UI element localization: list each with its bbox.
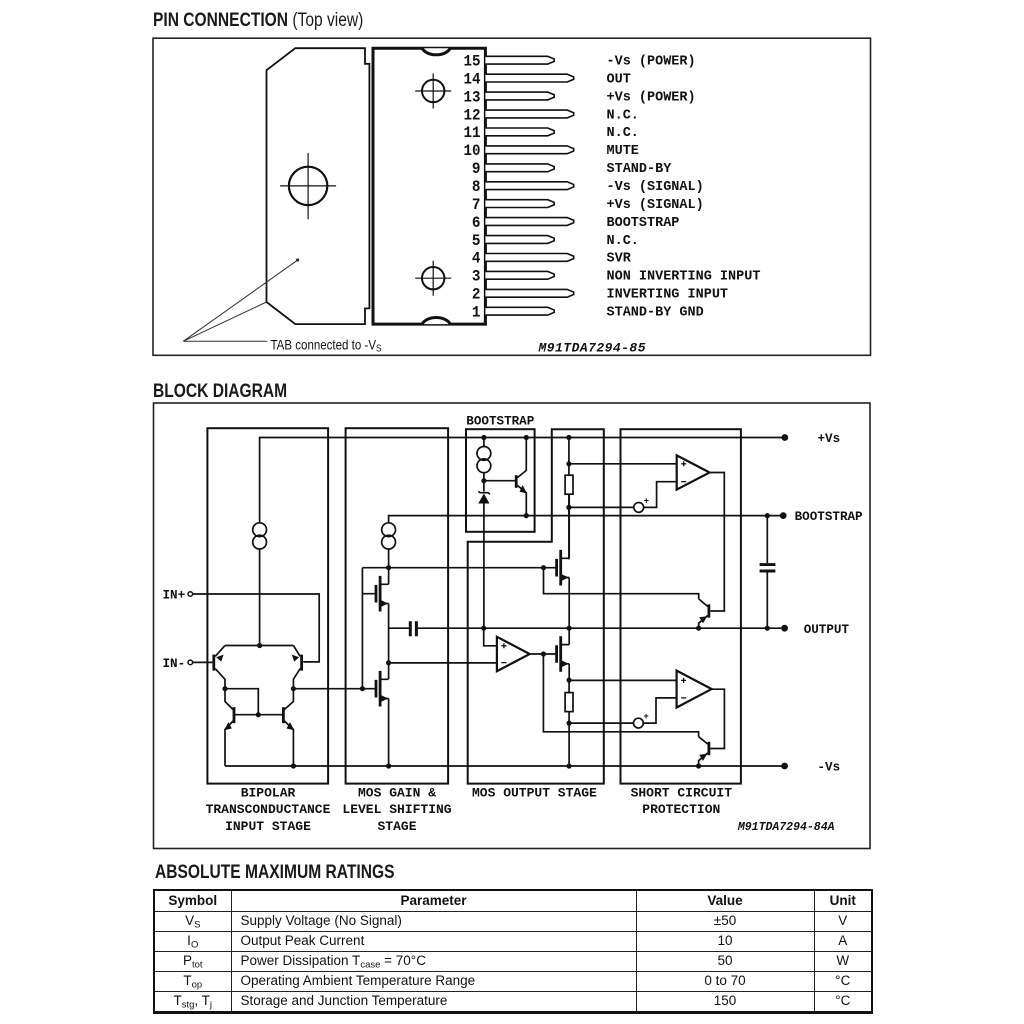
wire P1 to A1 inverting input bbox=[644, 482, 677, 508]
absolute maximum ratings table bbox=[153, 889, 873, 1014]
wire A2 output to M4 gate bbox=[530, 653, 557, 655]
tab leader lines bbox=[183, 258, 299, 341]
svg-text:+Vs (SIGNAL): +Vs (SIGNAL) bbox=[607, 198, 704, 213]
svg-text:OUT: OUT bbox=[607, 72, 631, 87]
junction R1 top tap bbox=[566, 461, 571, 466]
junction +Vs/bootstrap current source bbox=[481, 435, 486, 440]
junction emitter rail bbox=[257, 643, 262, 648]
transistor Q4 (protection PNP, lower) bbox=[708, 742, 711, 755]
wire A2 output to protection (lower) bbox=[543, 654, 698, 737]
transistor Q1 (bootstrap follower) bbox=[515, 475, 518, 488]
svg-text:N.C.: N.C. bbox=[607, 234, 639, 249]
svg-text:M91TDA7294-84A: M91TDA7294-84A bbox=[737, 821, 835, 834]
svg-text:10: 10 bbox=[464, 142, 481, 160]
wire A2 + input from feedback node bbox=[484, 628, 497, 646]
svg-text:BIPOLAR: BIPOLAR bbox=[241, 786, 296, 801]
package body bbox=[373, 48, 485, 324]
body crosshair bottom bbox=[422, 267, 444, 289]
wire IN+ to Q6 base bbox=[193, 594, 320, 662]
junction Q6 collector node bbox=[291, 686, 296, 691]
svg-text:BOOTSTRAP: BOOTSTRAP bbox=[795, 510, 863, 524]
svg-text:6: 6 bbox=[472, 214, 481, 232]
resistor R2 bbox=[568, 680, 570, 693]
junction R2 bottom bbox=[567, 721, 572, 726]
svg-text:N.C.: N.C. bbox=[607, 108, 639, 123]
svg-text:BOOTSTRAP: BOOTSTRAP bbox=[607, 216, 680, 231]
wire A3 output to Q4 base bbox=[710, 689, 724, 748]
terminal OUTPUT bbox=[782, 626, 787, 631]
BOOTSTRAP rail wire bbox=[389, 516, 784, 523]
capacitor C1 (Miller) left wire bbox=[389, 627, 409, 629]
svg-text:+Vs: +Vs bbox=[818, 432, 841, 446]
wire M4 source to R2 node bbox=[568, 664, 570, 680]
wire input stage output to M2 gate bbox=[293, 688, 376, 690]
wire R1 tap to A1 non-inverting input bbox=[569, 463, 677, 465]
pin 2 lead bbox=[485, 289, 573, 297]
pin 14 lead bbox=[485, 74, 573, 82]
junction -Vs / right mirror emitter bbox=[291, 763, 296, 768]
terminal IN- bbox=[188, 660, 193, 665]
svg-text:PROTECTION: PROTECTION bbox=[642, 802, 720, 817]
svg-text:-Vs (POWER): -Vs (POWER) bbox=[607, 55, 696, 70]
svg-text:N.C.: N.C. bbox=[607, 126, 639, 141]
body bottom notch bbox=[422, 318, 450, 325]
pin leads 1..15 bbox=[485, 56, 573, 315]
svg-text:INPUT STAGE: INPUT STAGE bbox=[225, 819, 311, 834]
wire M3 drain to R1 bbox=[568, 494, 570, 558]
svg-text:9: 9 bbox=[472, 160, 481, 178]
junction gate node M2 bbox=[360, 686, 365, 691]
transistor Q3 (protection PNP, upper) bbox=[708, 604, 711, 617]
body crosshair top bbox=[422, 80, 444, 102]
pin 7 lead bbox=[485, 200, 554, 208]
svg-text:-Vs: -Vs bbox=[818, 761, 841, 775]
svg-text:STAND-BY GND: STAND-BY GND bbox=[607, 306, 704, 321]
junction A2 output branch bbox=[541, 651, 546, 656]
svg-text:14: 14 bbox=[464, 70, 481, 88]
bootstrap sub-circuit box bbox=[466, 429, 535, 532]
wire I2 to node A bbox=[388, 549, 390, 568]
junction output rail / Q3 emitter bbox=[696, 626, 701, 631]
svg-text:MOS GAIN &: MOS GAIN & bbox=[358, 786, 436, 801]
wire I3 to zener/base node bbox=[483, 473, 485, 481]
current source I2 (gain stage) bbox=[382, 523, 396, 537]
junction +Vs/R1 bbox=[566, 435, 571, 440]
svg-text:12: 12 bbox=[464, 106, 481, 124]
wire M2 source to -Vs bbox=[388, 699, 390, 767]
resistor R1 bbox=[568, 438, 570, 476]
junction +Vs/bootstrap transistor collector bbox=[524, 435, 529, 440]
wire mirror bases bbox=[235, 714, 283, 716]
junction -Vs / R2 bbox=[567, 763, 572, 768]
pin 15 lead bbox=[485, 56, 554, 64]
svg-text:TAB connected to -VS: TAB connected to -VS bbox=[271, 337, 382, 355]
capacitor C2 plates bbox=[760, 565, 776, 571]
svg-text:-Vs (SIGNAL): -Vs (SIGNAL) bbox=[607, 180, 704, 195]
junction bootstrap rail / C2 bbox=[765, 513, 770, 518]
wire IN- to Q5 base bbox=[193, 661, 213, 663]
svg-text:LEVEL SHIFTING: LEVEL SHIFTING bbox=[342, 802, 451, 817]
opamp A2 (output stage driver) bbox=[497, 637, 530, 671]
section title: BLOCK DIAGRAM bbox=[153, 381, 287, 403]
junction node A bbox=[386, 565, 391, 570]
stage box: bipolar transconductance input stage bbox=[207, 428, 328, 783]
section title: PIN CONNECTION (Top view) bbox=[153, 10, 363, 32]
svg-text:BOOTSTRAP: BOOTSTRAP bbox=[466, 415, 534, 429]
junction zener node bbox=[481, 478, 486, 483]
transistor Q6 (input PNP, right) bbox=[300, 655, 303, 671]
mosfet M2 (gain stage driver) bbox=[376, 671, 380, 707]
svg-text:8: 8 bbox=[472, 178, 481, 196]
svg-text:15: 15 bbox=[464, 53, 481, 71]
wire Q5 collector to mirror bases bbox=[225, 689, 258, 715]
junction R1 bottom bbox=[566, 505, 571, 510]
terminal BOOTSTRAP bbox=[781, 513, 786, 518]
svg-text:5: 5 bbox=[472, 232, 481, 250]
mosfet M3 (output, upper) bbox=[557, 550, 561, 586]
source P2 (threshold, circle +) bbox=[634, 718, 644, 728]
svg-text:STAND-BY: STAND-BY bbox=[607, 162, 673, 177]
stage box: MOS gain & level shifting stage bbox=[346, 428, 449, 783]
wire gate node to protection (upper) bbox=[544, 568, 699, 599]
wire node to Q1 base bbox=[484, 480, 516, 482]
figure 2 border frame bbox=[154, 403, 871, 849]
svg-text:INVERTING INPUT: INVERTING INPUT bbox=[607, 288, 729, 303]
junction output rail / C2 bbox=[765, 626, 770, 631]
package tab (heatsink) outline bbox=[267, 48, 370, 324]
svg-text:+: + bbox=[643, 712, 648, 722]
svg-text:NON INVERTING INPUT: NON INVERTING INPUT bbox=[607, 270, 761, 285]
OUTPUT rail wire bbox=[418, 627, 785, 629]
tab mounting hole bbox=[289, 167, 327, 205]
wire M2 drain to A2 inverting input bbox=[389, 662, 497, 664]
mosfet M1 (gain stage cascode) bbox=[376, 576, 380, 612]
svg-text:+: + bbox=[644, 497, 649, 507]
wire zener anode down to output feedback node bbox=[483, 504, 485, 629]
-Vs rail wire bbox=[225, 765, 785, 767]
wire I1 to diff pair emitters bbox=[259, 549, 261, 646]
current source I1 (input stage) bbox=[253, 523, 267, 537]
pin 3 lead bbox=[485, 271, 554, 279]
wire A1 output to Q3 base bbox=[710, 473, 725, 612]
terminal +Vs bbox=[782, 435, 787, 440]
transistor Q7 (mirror NPN, left) bbox=[233, 707, 236, 723]
svg-text:3: 3 bbox=[472, 268, 481, 286]
source P1 (threshold, circle +) bbox=[634, 503, 644, 513]
pin 5 lead bbox=[485, 236, 554, 244]
+Vs rail wire bbox=[260, 438, 785, 523]
pin 6 lead bbox=[485, 218, 573, 226]
mosfet M4 (output, lower) bbox=[557, 636, 561, 672]
svg-text:7: 7 bbox=[472, 196, 481, 214]
stage box: short circuit protection bbox=[621, 429, 741, 783]
zener diode D1 bbox=[478, 491, 490, 494]
pin numbers and labels bbox=[464, 53, 761, 322]
svg-text:IN+: IN+ bbox=[163, 589, 186, 603]
opamp A1 (protection, upper) bbox=[677, 455, 710, 489]
svg-text:IN-: IN- bbox=[163, 657, 186, 671]
junction M3 gate branch bbox=[541, 565, 546, 570]
pin 9 lead bbox=[485, 164, 554, 172]
opamp A3 (protection, lower) bbox=[677, 671, 712, 708]
pin 8 lead bbox=[485, 182, 573, 190]
stage box: MOS output stage (notched around bootstrap) bbox=[468, 429, 604, 783]
pin 12 lead bbox=[485, 110, 573, 118]
pin 10 lead bbox=[485, 146, 573, 154]
junction -Vs / Q4 emitter bbox=[696, 763, 701, 768]
svg-text:OUTPUT: OUTPUT bbox=[804, 623, 850, 637]
svg-text:1: 1 bbox=[472, 304, 481, 322]
svg-text:+Vs (POWER): +Vs (POWER) bbox=[607, 90, 696, 105]
section title: ABSOLUTE MAXIMUM RATINGS bbox=[155, 862, 394, 884]
junction Q5 collector node bbox=[222, 686, 227, 691]
svg-text:MOS OUTPUT STAGE: MOS OUTPUT STAGE bbox=[472, 786, 597, 801]
wire R1 bottom to source P1 bbox=[569, 506, 634, 508]
body top notch bbox=[422, 48, 450, 55]
svg-text:11: 11 bbox=[464, 124, 481, 142]
wire M1 gate bias jog bbox=[362, 568, 376, 689]
transistor Q8 (mirror NPN, right) bbox=[282, 707, 285, 723]
svg-text:M91TDA7294-85: M91TDA7294-85 bbox=[538, 341, 646, 356]
junction M4 source node bbox=[567, 678, 572, 683]
svg-text:STAGE: STAGE bbox=[377, 819, 416, 834]
wire node A to M3 gate (long) bbox=[362, 567, 556, 569]
junction -Vs / M2 source bbox=[386, 763, 391, 768]
wire P2 to A3 inverting input bbox=[643, 698, 676, 723]
capacitor C1 plates bbox=[410, 621, 416, 636]
wire diff pair emitter rail bbox=[225, 645, 293, 647]
figure 1 border frame bbox=[153, 38, 871, 355]
terminal IN+ bbox=[188, 592, 193, 597]
pin 11 lead bbox=[485, 128, 554, 136]
wire M1 drain to node A bbox=[388, 568, 390, 585]
svg-text:2: 2 bbox=[472, 286, 481, 304]
svg-text:SHORT CIRCUIT: SHORT CIRCUIT bbox=[631, 786, 733, 801]
junction output rail / M3-M4 bbox=[567, 626, 572, 631]
capacitor C2 (bootstrap) wires bbox=[766, 516, 768, 629]
wire +Vs to I3 bbox=[483, 438, 485, 447]
junction M2 drain / opamp sense bbox=[386, 660, 391, 665]
svg-text:13: 13 bbox=[464, 88, 481, 106]
wire M1 source down to capacitor node bbox=[388, 604, 390, 680]
junction mirror bases bbox=[256, 712, 261, 717]
svg-text:SVR: SVR bbox=[607, 252, 632, 267]
wire M4 source node to A3 non-inverting input bbox=[569, 679, 677, 681]
svg-text:MUTE: MUTE bbox=[607, 144, 639, 159]
current source I3 (bootstrap) bbox=[477, 447, 491, 461]
junction output rail / zener-opamp branch bbox=[481, 626, 486, 631]
wire M3 source to OUTPUT bbox=[568, 578, 570, 629]
terminal -Vs bbox=[782, 763, 787, 768]
wire R2 bottom to source P2 bbox=[569, 722, 633, 724]
svg-text:TRANSCONDUCTANCE: TRANSCONDUCTANCE bbox=[206, 802, 331, 817]
wire M4 drain to OUTPUT bbox=[568, 628, 570, 644]
transistor Q5 (input PNP, left) bbox=[212, 655, 215, 671]
pin 4 lead bbox=[485, 254, 573, 262]
junction bootstrap rail / Q1 emitter bbox=[524, 513, 529, 518]
pin 13 lead bbox=[485, 92, 554, 100]
svg-text:4: 4 bbox=[472, 250, 481, 268]
pin 1 lead bbox=[485, 307, 554, 315]
